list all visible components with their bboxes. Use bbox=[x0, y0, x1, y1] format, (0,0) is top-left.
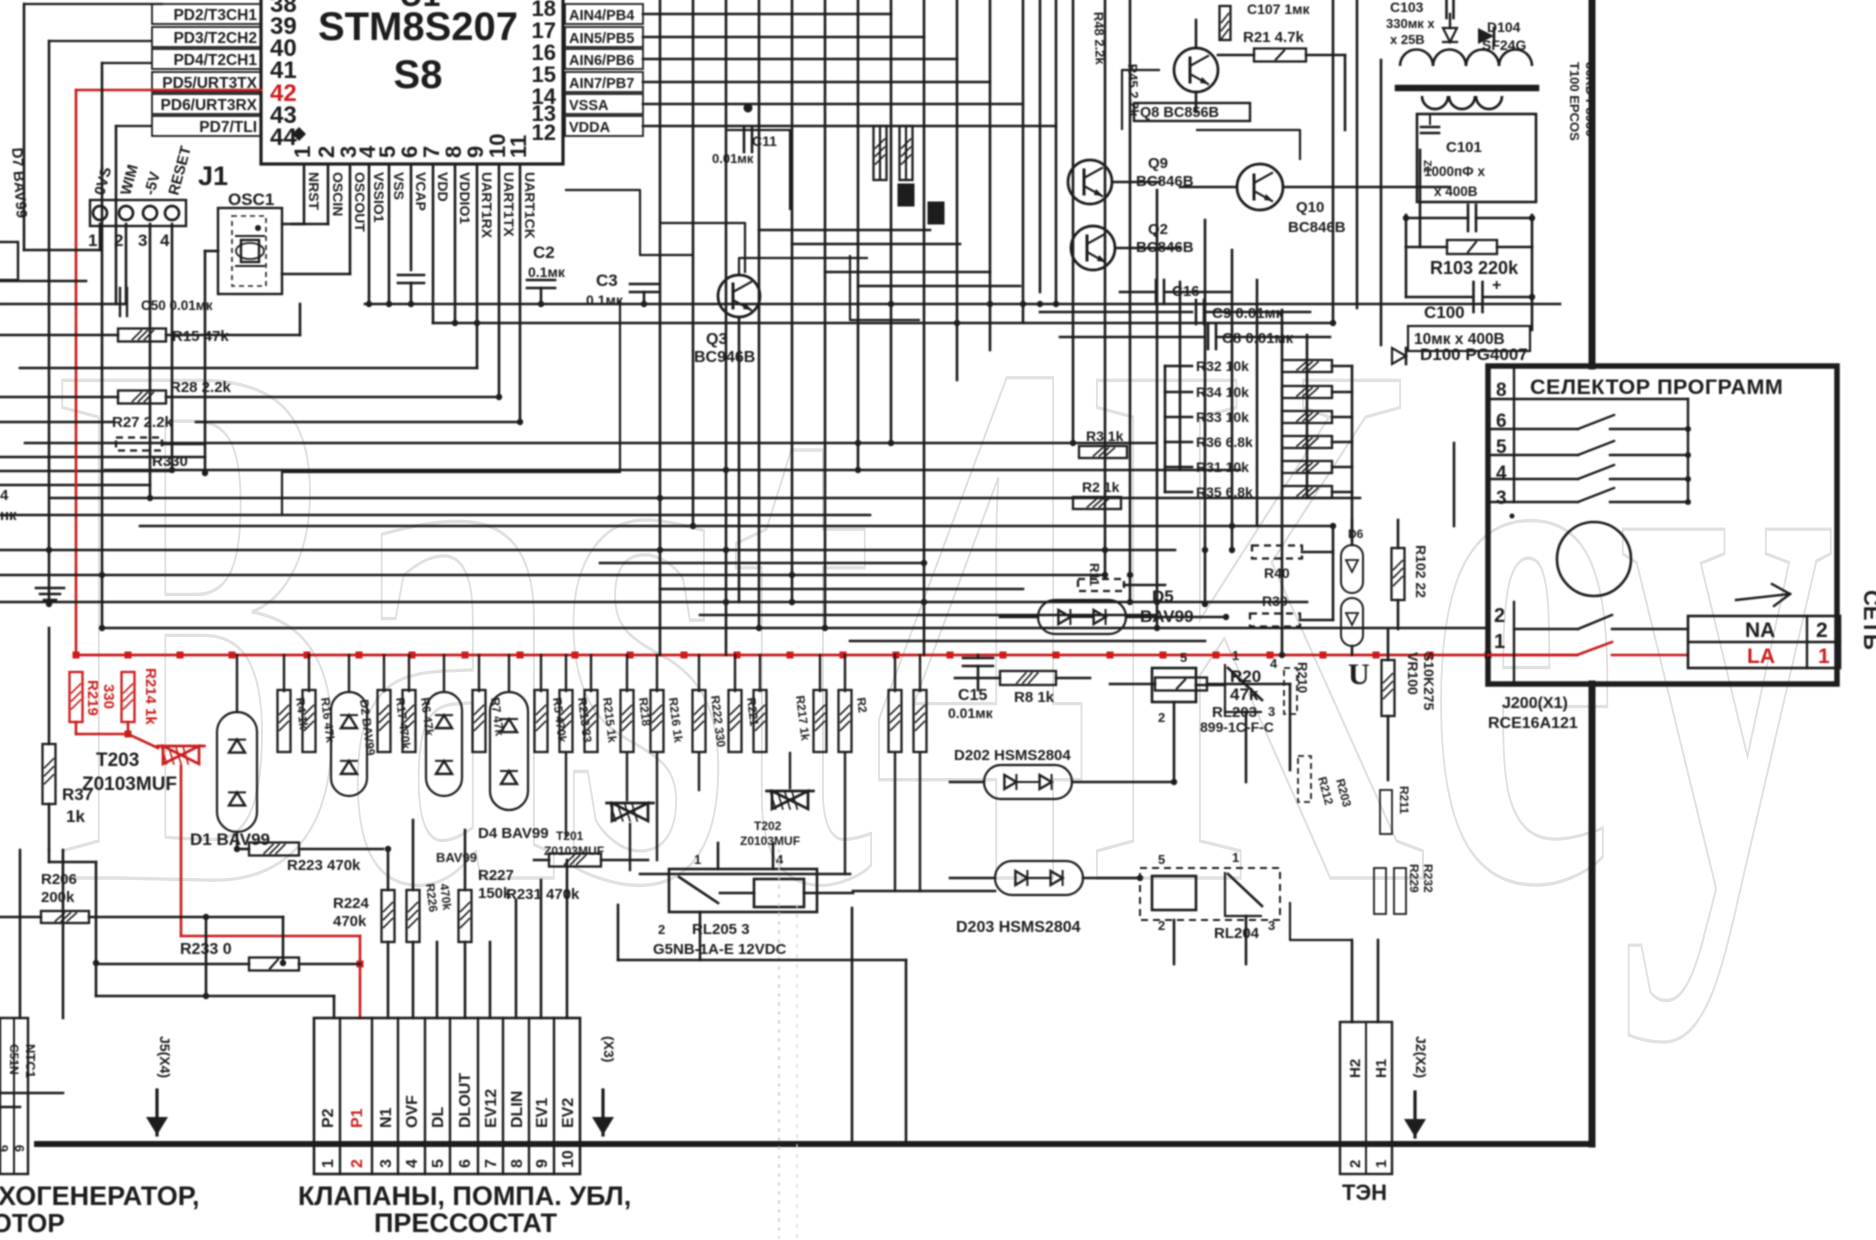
svg-text:Bast4Key: Bast4Key bbox=[55, 202, 1835, 1044]
svg-text:1: 1 bbox=[1818, 645, 1830, 668]
svg-text:VSS: VSS bbox=[391, 172, 407, 200]
wire osc to pin2 bbox=[282, 223, 328, 226]
capacitor C11 bbox=[744, 104, 753, 113]
svg-text:AIN7/PB7: AIN7/PB7 bbox=[569, 76, 634, 92]
svg-text:H2: H2 bbox=[1347, 1059, 1364, 1078]
mcu right pin label AIN6/PB6 bbox=[565, 49, 643, 69]
diode D1 BAV99 bbox=[217, 712, 257, 832]
svg-text:R227: R227 bbox=[478, 867, 514, 884]
junction dots mid band bbox=[657, 547, 663, 553]
wire pin4 vssio bbox=[368, 164, 371, 304]
svg-text:C11: C11 bbox=[752, 133, 777, 149]
mcu left pin label PD3/T2CH2 bbox=[152, 27, 261, 47]
svg-text:G5NB-1A-E 12VDC: G5NB-1A-E 12VDC bbox=[653, 941, 787, 958]
connector J1 box bbox=[90, 200, 186, 226]
svg-text:Q2: Q2 bbox=[1148, 221, 1168, 238]
svg-text:R102 22: R102 22 bbox=[1413, 545, 1429, 598]
svg-text:NA: NA bbox=[1745, 619, 1775, 642]
resistor R7 bbox=[473, 690, 486, 752]
wire H feeds bbox=[1351, 940, 1354, 1022]
svg-text:899-1C-F-C: 899-1C-F-C bbox=[1200, 719, 1274, 735]
resistor R221 bbox=[729, 690, 742, 752]
svg-text:PD6/URT3RX: PD6/URT3RX bbox=[161, 97, 258, 114]
svg-text:C15: C15 bbox=[958, 687, 987, 704]
svg-text:1k: 1k bbox=[66, 807, 85, 826]
resistor R15 bbox=[118, 329, 166, 342]
resistor R216 bbox=[651, 690, 664, 752]
svg-text:RCE16A121: RCE16A121 bbox=[1488, 715, 1578, 732]
resistor R6 bbox=[403, 690, 416, 752]
svg-text:2: 2 bbox=[349, 1159, 366, 1168]
svg-text:Z1: Z1 bbox=[1421, 160, 1433, 173]
svg-text:12: 12 bbox=[532, 120, 556, 145]
svg-text:Z0103MUF: Z0103MUF bbox=[740, 834, 800, 848]
svg-text:BAV99: BAV99 bbox=[436, 850, 477, 865]
svg-text:Q9: Q9 bbox=[1148, 155, 1168, 172]
cap C101 inner bbox=[1421, 126, 1439, 129]
svg-text:R214 1k: R214 1k bbox=[142, 668, 159, 725]
svg-text:C50 0.01мк: C50 0.01мк bbox=[141, 298, 213, 313]
connector H1H2 bbox=[1340, 1022, 1392, 1174]
transistor Q8 bbox=[1174, 48, 1218, 92]
svg-text:C51N: C51N bbox=[7, 1044, 21, 1075]
resistor R220 bbox=[839, 690, 852, 752]
svg-text:1: 1 bbox=[1232, 850, 1239, 865]
transformer T100 core bbox=[1398, 85, 1536, 92]
svg-text:DL: DL bbox=[430, 1106, 447, 1128]
svg-text:STM8S207: STM8S207 bbox=[318, 5, 518, 49]
transistor Q2 bbox=[1071, 226, 1115, 270]
resistor R17 bbox=[378, 690, 391, 752]
svg-text:ХОГЕНЕРАТОР,: ХОГЕНЕРАТОР, bbox=[0, 1181, 200, 1211]
svg-text:СЕЛЕКТОР ПРОГРАММ: СЕЛЕКТОР ПРОГРАММ bbox=[1530, 375, 1783, 399]
mcu right pin label AIN5/PB5 bbox=[565, 27, 643, 47]
svg-text:3: 3 bbox=[138, 231, 147, 250]
svg-text:R27 2.2k: R27 2.2k bbox=[112, 414, 174, 431]
svg-text:R211: R211 bbox=[1397, 786, 1411, 814]
wire osc left bbox=[205, 250, 218, 253]
wire q8 area bbox=[1122, 70, 1160, 130]
resistor R213 bbox=[560, 690, 573, 752]
red resistor R214 bbox=[122, 672, 135, 722]
svg-text:R330: R330 bbox=[152, 453, 188, 470]
svg-text:R31 10k: R31 10k bbox=[1196, 459, 1249, 475]
svg-text:11: 11 bbox=[506, 135, 531, 158]
resistor R4 bbox=[278, 690, 291, 752]
transistor Q10 bbox=[1237, 164, 1283, 210]
svg-text:(X3): (X3) bbox=[601, 1036, 617, 1062]
wire pin5 vss bbox=[388, 164, 391, 304]
svg-text:R223 470k: R223 470k bbox=[287, 857, 361, 874]
resistor pair center bbox=[874, 126, 887, 180]
svg-text:BC846B: BC846B bbox=[1136, 239, 1194, 256]
ground line y304 bbox=[365, 303, 1560, 306]
mcu right pin label VDDA bbox=[565, 116, 643, 136]
svg-text:S8: S8 bbox=[394, 53, 443, 97]
svg-text:NRST: NRST bbox=[306, 172, 322, 211]
resistor R226 bbox=[407, 890, 420, 942]
svg-text:OVF: OVF bbox=[404, 1095, 421, 1128]
resistor R37 bbox=[43, 744, 56, 804]
diode D4 bbox=[490, 692, 528, 810]
svg-text:ПРЕССОСТАТ: ПРЕССОСТАТ bbox=[374, 1208, 558, 1238]
wire pd3 bbox=[49, 40, 152, 42]
wire pin6 vcap bbox=[410, 164, 413, 270]
svg-text:5: 5 bbox=[430, 1159, 447, 1168]
wire left verticals bottom bbox=[19, 850, 22, 1018]
svg-text:C101: C101 bbox=[1446, 139, 1482, 156]
resistor R102 bbox=[1392, 548, 1405, 600]
svg-text:6: 6 bbox=[0, 1145, 11, 1152]
svg-text:Q3: Q3 bbox=[706, 331, 727, 348]
svg-text:4: 4 bbox=[160, 231, 170, 250]
wire pin8 vddio bbox=[454, 164, 457, 323]
wire conn verticals bbox=[436, 942, 439, 1018]
box C101 bbox=[1417, 114, 1536, 202]
wire bottom mid net bbox=[618, 959, 906, 962]
svg-text:4: 4 bbox=[1270, 656, 1278, 671]
svg-text:VSSA: VSSA bbox=[569, 98, 609, 114]
triac T203 bbox=[163, 746, 181, 764]
wire j1p4 bbox=[171, 224, 174, 470]
svg-text:1: 1 bbox=[320, 1159, 337, 1168]
svg-text:Z0103MUF: Z0103MUF bbox=[82, 774, 177, 795]
svg-text:RL204: RL204 bbox=[1214, 925, 1260, 942]
resistor R224 bbox=[382, 890, 395, 942]
svg-text:R3 1k: R3 1k bbox=[1086, 428, 1124, 444]
connector left edge bbox=[0, 1018, 28, 1174]
transformer T100 secondary bbox=[1422, 96, 1448, 109]
resistor R215 bbox=[585, 690, 598, 752]
svg-text:R103 220k: R103 220k bbox=[1430, 258, 1519, 278]
svg-text:R11: R11 bbox=[1087, 563, 1102, 586]
svg-text:3: 3 bbox=[1268, 704, 1275, 719]
svg-text:Q10: Q10 bbox=[1296, 199, 1324, 216]
svg-text:8: 8 bbox=[509, 1159, 526, 1168]
wire pd2 bbox=[24, 3, 163, 5]
svg-text:AIN5/PB5: AIN5/PB5 bbox=[569, 31, 634, 47]
svg-text:СЕТЬ: СЕТЬ bbox=[1859, 590, 1876, 650]
selector pin col sep bbox=[1513, 602, 1515, 684]
svg-text:D100 PG4007: D100 PG4007 bbox=[1420, 345, 1528, 364]
thick line top bbox=[1589, 0, 1596, 366]
selector switches bbox=[1488, 398, 1688, 400]
red wire R219 bottom bbox=[75, 722, 78, 734]
red wire triac down bbox=[180, 766, 183, 936]
wire j1p3 bbox=[149, 224, 152, 498]
svg-text:AIN4/PB4: AIN4/PB4 bbox=[569, 8, 634, 24]
capacitor C103 sym bbox=[1445, 0, 1448, 18]
svg-text:0.01мк: 0.01мк bbox=[948, 705, 994, 721]
varistor VR100 bbox=[1387, 629, 1390, 660]
transistor Q9 bbox=[1068, 160, 1112, 204]
diode D202 bbox=[984, 765, 1072, 799]
resistor R330 bbox=[116, 438, 162, 451]
oscillator OSC1 box bbox=[218, 208, 282, 294]
wire pin1 nrst bbox=[303, 164, 306, 224]
red resistor R219 bbox=[70, 672, 83, 722]
svg-text:1: 1 bbox=[1373, 1160, 1390, 1168]
relay RL205 wires bbox=[717, 843, 720, 869]
red junction dots bus bbox=[73, 652, 80, 659]
svg-text:2: 2 bbox=[1494, 605, 1505, 627]
svg-text:OSC1: OSC1 bbox=[228, 190, 274, 209]
svg-text:D5: D5 bbox=[1152, 587, 1174, 606]
svg-text:D203 HSMS2804: D203 HSMS2804 bbox=[956, 919, 1081, 936]
diode D2 bbox=[331, 692, 367, 796]
resistor R20 bbox=[1110, 683, 1155, 686]
svg-text:5: 5 bbox=[1180, 650, 1187, 665]
wire lower links bbox=[656, 753, 658, 860]
dark blob 1 bbox=[898, 184, 914, 206]
svg-text:UART1RX: UART1RX bbox=[479, 172, 495, 239]
svg-text:SF24G: SF24G bbox=[1482, 37, 1526, 53]
svg-text:VDD: VDD bbox=[435, 172, 451, 202]
svg-text:нк: нк bbox=[0, 507, 17, 524]
svg-text:R35 6.8k: R35 6.8k bbox=[1196, 484, 1253, 500]
svg-text:4: 4 bbox=[776, 852, 784, 867]
svg-text:J2(X2): J2(X2) bbox=[1413, 1036, 1429, 1078]
cap C101 bottom bbox=[1467, 205, 1470, 231]
triac T202 bbox=[772, 791, 790, 809]
mcu left pin label PD2/T3CH1 bbox=[152, 4, 261, 24]
svg-text:EV2: EV2 bbox=[560, 1098, 577, 1128]
svg-text:+: + bbox=[1492, 277, 1501, 294]
svg-text:R39: R39 bbox=[1262, 593, 1288, 609]
svg-text:0.1мк: 0.1мк bbox=[586, 292, 624, 308]
svg-text:МОТОР: МОТОР bbox=[0, 1208, 65, 1238]
wire pin9 rx bbox=[476, 164, 479, 368]
resistor R230 bbox=[889, 690, 902, 752]
svg-text:C107 1мк: C107 1мк bbox=[1247, 1, 1311, 17]
svg-text:D1 BAV99: D1 BAV99 bbox=[190, 830, 270, 849]
wire vertical bus center bbox=[659, 0, 662, 655]
diode D5 bbox=[1038, 600, 1126, 634]
svg-text:470k: 470k bbox=[333, 913, 367, 930]
connector J1 pins bbox=[93, 206, 107, 220]
svg-text:J5(X4): J5(X4) bbox=[157, 1036, 173, 1078]
resistor R229 R232 bbox=[1374, 868, 1386, 914]
svg-text:VDDA: VDDA bbox=[569, 120, 611, 136]
svg-text:2: 2 bbox=[1158, 918, 1165, 933]
vdd line y323 bbox=[433, 322, 1333, 325]
svg-text:LA: LA bbox=[1747, 645, 1775, 668]
red wire pin42 to bus bbox=[76, 89, 261, 92]
wire pin11 ck bbox=[519, 164, 522, 422]
triac T201 bbox=[612, 803, 630, 821]
wire pin10 tx bbox=[498, 164, 501, 397]
mcu left pin label PD5/URT3TX bbox=[152, 72, 261, 92]
diode D100 bbox=[1392, 348, 1406, 364]
selector small mark bbox=[1510, 514, 1515, 519]
svg-text:D4 BAV99: D4 BAV99 bbox=[478, 825, 549, 842]
svg-text:1: 1 bbox=[88, 231, 97, 250]
mcu left pin label PD4/T2CH1 bbox=[152, 49, 261, 69]
svg-text:PD2/T3CH1: PD2/T3CH1 bbox=[173, 7, 257, 24]
relay RL203 bbox=[1152, 668, 1196, 702]
capacitor C8 bbox=[1060, 336, 1204, 339]
svg-text:2: 2 bbox=[1816, 619, 1828, 642]
capacitor C100 bbox=[1472, 282, 1475, 312]
mcu right pin label AIN7/PB7 bbox=[565, 72, 643, 92]
selector rows box bbox=[1513, 366, 1515, 502]
svg-text:R32 10k: R32 10k bbox=[1196, 358, 1249, 374]
speckle columns bbox=[778, 850, 780, 1238]
svg-text:VCAP: VCAP bbox=[413, 172, 429, 211]
resistor R28 bbox=[118, 391, 166, 404]
svg-text:1: 1 bbox=[694, 852, 701, 867]
svg-text:D202 HSMS2804: D202 HSMS2804 bbox=[954, 747, 1071, 764]
wire j1p1 bbox=[99, 224, 102, 250]
svg-text:10: 10 bbox=[560, 1150, 577, 1168]
svg-text:DLIN: DLIN bbox=[509, 1091, 526, 1128]
svg-text:330мк х: 330мк х bbox=[1386, 16, 1435, 31]
svg-text:PD7/TLI: PD7/TLI bbox=[199, 119, 257, 136]
svg-text:T202: T202 bbox=[754, 819, 782, 833]
wire left rows bbox=[0, 456, 205, 459]
resistor R222 bbox=[693, 690, 706, 752]
wire j1p2 bbox=[125, 224, 128, 304]
red wire to triac bbox=[128, 734, 158, 748]
svg-text:R2: R2 bbox=[854, 697, 870, 714]
svg-text:R229: R229 bbox=[1407, 864, 1421, 893]
wire ain rows right bbox=[643, 13, 891, 16]
svg-text:R206: R206 bbox=[41, 871, 77, 888]
diode D3 bbox=[426, 692, 462, 796]
svg-text:EV1: EV1 bbox=[534, 1098, 551, 1128]
svg-text:P1: P1 bbox=[349, 1108, 366, 1128]
dark blob 2 bbox=[928, 202, 944, 224]
svg-text:R8 1k: R8 1k bbox=[1014, 689, 1055, 706]
wire horizontal mid band bbox=[25, 442, 1155, 445]
svg-text:9: 9 bbox=[12, 1145, 27, 1152]
wire r233 feed bbox=[48, 850, 51, 862]
svg-text:EV12: EV12 bbox=[483, 1089, 500, 1128]
svg-text:PD3/T2CH2: PD3/T2CH2 bbox=[173, 30, 257, 47]
svg-text:S10K275: S10K275 bbox=[1421, 652, 1437, 711]
watermark Bast4Key bbox=[55, 202, 1835, 1044]
svg-text:4: 4 bbox=[0, 487, 9, 504]
svg-text:0.01мк: 0.01мк bbox=[712, 151, 754, 166]
svg-text:OSCIN: OSCIN bbox=[330, 172, 346, 216]
red bus horizontal bbox=[76, 654, 1577, 657]
selector knob bbox=[1557, 522, 1631, 596]
resistor R9 bbox=[955, 677, 1000, 680]
resistor R16 bbox=[303, 690, 316, 752]
wire r15 row bbox=[0, 334, 118, 337]
svg-text:P2: P2 bbox=[320, 1108, 337, 1128]
svg-text:1: 1 bbox=[1494, 631, 1505, 653]
mcu right pin label VSSA bbox=[565, 94, 643, 114]
svg-text:UART1CK: UART1CK bbox=[522, 172, 538, 239]
svg-text:U: U bbox=[1348, 658, 1370, 691]
wire r28 row bbox=[0, 396, 118, 399]
capacitor C9 bbox=[1040, 311, 1192, 314]
svg-text:R28 2.2k: R28 2.2k bbox=[170, 379, 232, 396]
wire stubs below bus bbox=[283, 655, 285, 691]
svg-text:OSCOUT: OSCOUT bbox=[352, 172, 368, 232]
relay RL205 bbox=[669, 869, 817, 912]
svg-text:1: 1 bbox=[290, 146, 315, 158]
partial component left edge bbox=[0, 242, 18, 280]
svg-text:D104: D104 bbox=[1487, 19, 1521, 35]
relay RL204 bbox=[1140, 868, 1280, 920]
oscillator OSC1 crystal bbox=[241, 240, 259, 262]
transformer T100 primary bbox=[1400, 50, 1433, 67]
resistor R217 bbox=[754, 690, 767, 752]
svg-text:330: 330 bbox=[100, 684, 117, 709]
svg-text:C2: C2 bbox=[533, 243, 555, 262]
wire staircase center bbox=[565, 190, 693, 255]
svg-text:КЛАПАНЫ, ПОМПА. УБЛ,: КЛАПАНЫ, ПОМПА. УБЛ, bbox=[298, 1181, 631, 1211]
svg-text:R224: R224 bbox=[333, 895, 370, 912]
svg-text:VR100: VR100 bbox=[1405, 652, 1421, 695]
svg-text:0.1мк: 0.1мк bbox=[528, 264, 566, 280]
svg-text:T201: T201 bbox=[556, 829, 584, 843]
ground symbol bbox=[36, 587, 64, 590]
svg-text:1: 1 bbox=[1232, 648, 1239, 663]
svg-text:х 400В: х 400В bbox=[1434, 184, 1478, 199]
svg-text:C3: C3 bbox=[596, 271, 618, 290]
svg-text:R219: R219 bbox=[84, 680, 101, 716]
svg-text:D6: D6 bbox=[1348, 527, 1364, 541]
thick line bottom right bbox=[1589, 684, 1596, 1144]
resistor R227 bbox=[459, 890, 472, 942]
svg-text:VDDIO1: VDDIO1 bbox=[457, 172, 473, 224]
svg-text:3: 3 bbox=[1496, 488, 1507, 509]
wire pin7 vdd bbox=[432, 164, 435, 323]
svg-text:C8 0.01мк: C8 0.01мк bbox=[1222, 330, 1294, 347]
diode D203 bbox=[995, 861, 1083, 895]
svg-text:T100 EPCOS: T100 EPCOS bbox=[1567, 62, 1582, 141]
svg-text:R48 2.2k: R48 2.2k bbox=[1091, 12, 1108, 66]
mcu U1 body bbox=[261, 0, 563, 164]
svg-text:J200(X1): J200(X1) bbox=[1502, 695, 1568, 712]
wire pd7 bbox=[116, 125, 152, 127]
capacitor C50 bbox=[119, 288, 121, 316]
svg-text:R21 4.7k: R21 4.7k bbox=[1243, 29, 1305, 46]
resistor R228 bbox=[914, 690, 927, 752]
svg-text:R15 47k: R15 47k bbox=[172, 328, 229, 345]
resistor R103 bbox=[1406, 246, 1447, 249]
svg-text:2: 2 bbox=[1347, 1160, 1364, 1168]
svg-text:UART1TX: UART1TX bbox=[501, 172, 517, 237]
resistor R223 bbox=[237, 848, 249, 851]
svg-text:3: 3 bbox=[378, 1159, 395, 1168]
svg-text:C100: C100 bbox=[1424, 303, 1465, 322]
svg-text:х 25В: х 25В bbox=[1390, 32, 1425, 47]
wire osc to pin3 bbox=[282, 273, 350, 276]
svg-text:C103: C103 bbox=[1390, 0, 1424, 15]
arrow sete bbox=[1736, 594, 1790, 600]
mcu left pin label PD6/URT3RX bbox=[152, 94, 261, 114]
relay RL204 wires bbox=[1173, 920, 1176, 964]
svg-text:H1: H1 bbox=[1373, 1059, 1390, 1078]
svg-text:NTC1: NTC1 bbox=[23, 1044, 38, 1078]
wire r27 row bbox=[0, 421, 112, 424]
resistor R5 bbox=[535, 690, 548, 752]
resistor R21 bbox=[1218, 54, 1254, 57]
svg-text:R232: R232 bbox=[1421, 864, 1435, 893]
svg-text:200k: 200k bbox=[41, 889, 75, 906]
svg-text:7: 7 bbox=[483, 1159, 500, 1168]
svg-text:C9 0.01мк: C9 0.01мк bbox=[1212, 305, 1284, 322]
svg-text:R40: R40 bbox=[1264, 565, 1290, 581]
svg-text:BC846B: BC846B bbox=[1288, 219, 1346, 236]
resistor R218 bbox=[621, 690, 634, 752]
svg-text:6: 6 bbox=[457, 1159, 474, 1168]
connector X3 box bbox=[314, 1018, 580, 1174]
